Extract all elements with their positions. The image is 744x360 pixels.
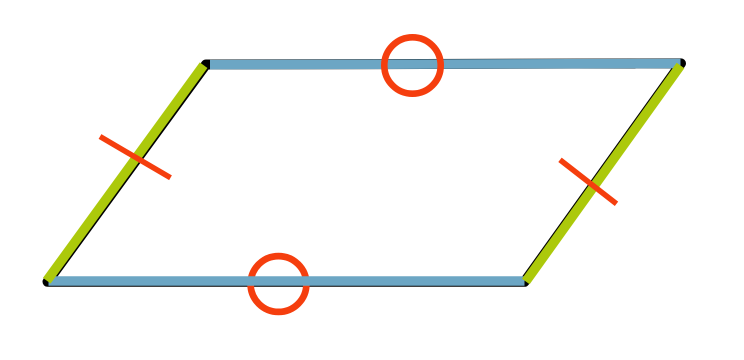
right side tick mark — [560, 160, 617, 204]
bottom congruence circle (under blue line) — [251, 256, 307, 312]
parallelogram black outline — [48, 63, 682, 281]
right side green overlay — [526, 66, 681, 282]
top congruence circle (over blue line) — [384, 37, 440, 93]
left side green overlay — [47, 65, 204, 281]
bottom side blue overlay — [49, 276, 525, 286]
left side tick mark — [100, 137, 171, 178]
top side blue overlay — [210, 64, 681, 65]
